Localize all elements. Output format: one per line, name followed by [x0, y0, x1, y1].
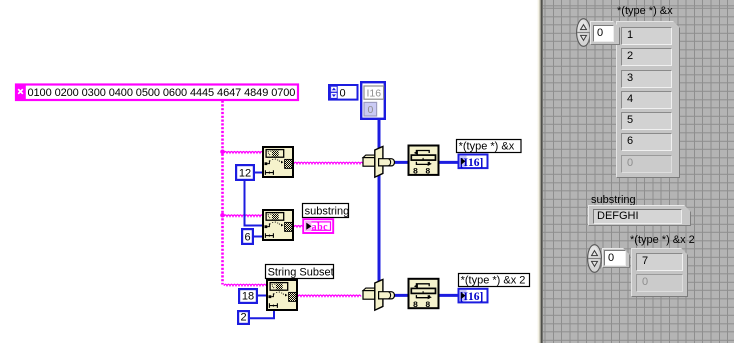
svg-text:0100 0200 0300 0400 0500 0600: 0100 0200 0300 0400 0500 0600 4445 4647 …: [28, 87, 296, 99]
svg-text:*(type *) &x 2: *(type *) &x 2: [461, 275, 526, 287]
svg-text:2: 2: [240, 312, 246, 324]
svg-text:0: 0: [368, 104, 374, 116]
svg-text:*(type *) &x: *(type *) &x: [459, 141, 515, 153]
svg-text:abc: abc: [312, 222, 329, 233]
svg-text:12: 12: [239, 168, 251, 180]
svg-text:I16: I16: [367, 87, 382, 99]
svg-text:substring: substring: [305, 206, 350, 218]
svg-text:18: 18: [242, 291, 254, 303]
svg-text:0: 0: [340, 88, 346, 100]
svg-text:6: 6: [244, 232, 250, 244]
svg-text:String Subset: String Subset: [268, 267, 334, 279]
